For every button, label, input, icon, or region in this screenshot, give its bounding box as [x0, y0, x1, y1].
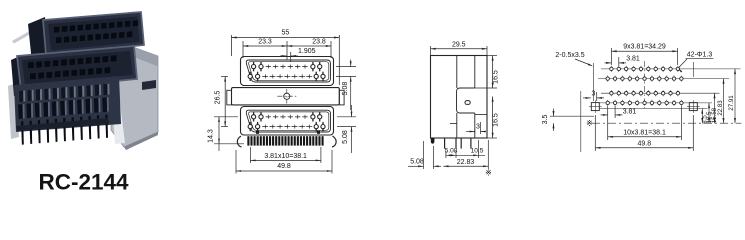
- photo: upper SCART pin holes row 1: [54, 27, 59, 33]
- svg-text:22.83: 22.83: [717, 100, 724, 116]
- front view: 23.8 dimension: [287, 45, 331, 47]
- front view: lower row 2 pins: [249, 122, 251, 131]
- front view: lower SCART opening (double outline): [246, 110, 330, 132]
- photo: upper connector housing left wall: [28, 17, 47, 63]
- front view: upper face outer outline: [241, 57, 334, 86]
- front view: flange right tab: [339, 90, 344, 105]
- side view: body outline: [431, 56, 488, 139]
- side view: thick front pin: [431, 138, 435, 144]
- svg-text:10x3.81=38.1: 10x3.81=38.1: [623, 129, 666, 136]
- front view: lower 5.08 dimension: [337, 116, 356, 118]
- front view: mounting flange: [232, 88, 340, 105]
- front view: right retention clip: [332, 136, 336, 147]
- svg-text:2-0.5x3.5: 2-0.5x3.5: [555, 52, 584, 59]
- photo: metal shield right rear panel: [111, 47, 158, 147]
- svg-text:5.08: 5.08: [445, 148, 458, 155]
- side view: left 5.08 dimension: [422, 141, 424, 169]
- side view: 16.5 upper dimension: [487, 55, 497, 57]
- svg-text:23.8: 23.8: [312, 39, 326, 46]
- photo: lower body block: [14, 76, 121, 132]
- pcb view: 3.5 dimension: [550, 115, 594, 117]
- svg-text:5.08: 5.08: [410, 158, 424, 165]
- svg-text:5.08: 5.08: [342, 82, 349, 96]
- side view: 22.83 dimension: [487, 140, 489, 169]
- pcb view: hole row 3 (10 holes): [610, 90, 612, 96]
- svg-text:29.5: 29.5: [452, 41, 466, 48]
- pcb view: bottom dashed centerline: [592, 122, 742, 124]
- photo: shield top face shading: [131, 47, 158, 66]
- side view: 3 dimension: [474, 129, 476, 134]
- pcb view: hole row 1 (10 holes): [610, 66, 612, 72]
- pcb view: pad bottom extension line: [599, 107, 708, 109]
- photo: upper SCART pin holes row 2: [56, 37, 61, 43]
- pcb view: 3 dimension: [596, 92, 598, 101]
- pcb view: right slot pad: [689, 103, 697, 111]
- front view: 23.3 dimension: [242, 41, 244, 58]
- side view: latch notch: [457, 88, 475, 113]
- photo: lower SCART pin holes row 2: [30, 73, 36, 79]
- svg-text:23.3: 23.3: [258, 39, 272, 46]
- pcb view: right vertical dimensions: [701, 108, 703, 123]
- pcb view: lower 3.81 dimension: [614, 106, 616, 118]
- pcb view: hole row 2 (11 holes): [607, 76, 609, 82]
- svg-text:5.08: 5.08: [342, 130, 349, 144]
- front view: 14.3 dimension: [214, 116, 238, 118]
- pcb view: vertical centerline: [644, 61, 646, 111]
- side view: shield step line: [475, 113, 487, 115]
- pcb view: upper 3.81 dimension: [618, 57, 620, 66]
- svg-text:55: 55: [282, 30, 290, 37]
- photo: shield bottom shadow edge: [124, 132, 158, 150]
- front view: upper row 2 pins: [249, 72, 251, 81]
- photo: shield latch slot: [142, 80, 156, 90]
- svg-text:14.3: 14.3: [208, 129, 215, 143]
- svg-text:3.81: 3.81: [623, 108, 637, 115]
- front view: 26.5 dimension: [221, 75, 228, 77]
- svg-text:3: 3: [476, 124, 480, 131]
- front view: flange left tab: [227, 90, 232, 105]
- photo: shield highlight stripe: [111, 86, 125, 144]
- svg-text:3.81x10=38.1: 3.81x10=38.1: [264, 153, 307, 160]
- side view: internal vertical edge (shield): [474, 56, 476, 89]
- photo: lower connector housing left wall: [11, 56, 23, 96]
- svg-text:10.5: 10.5: [471, 148, 484, 155]
- svg-text:16.5: 16.5: [493, 113, 500, 127]
- svg-text:※: ※: [485, 169, 492, 178]
- photo: black pin spikes: [21, 121, 24, 144]
- pcb view: left edge extension line: [580, 91, 582, 152]
- photo: lower SCART face inner recess: [22, 51, 133, 85]
- front view: 3.81x10=38.1 dimension: [249, 147, 251, 163]
- svg-text:※: ※: [586, 119, 593, 128]
- front view: upper SCART opening (double outline): [246, 60, 330, 82]
- photo: left metal sliver: [8, 83, 19, 139]
- pcb view: right pad upper extension: [692, 62, 694, 77]
- side view: 29.5 dimension: [430, 46, 432, 55]
- svg-text:3.81: 3.81: [626, 55, 640, 62]
- front view: 49.8 dimension: [235, 150, 237, 174]
- svg-text:16.5: 16.5: [493, 70, 500, 84]
- svg-text:49.8: 49.8: [277, 163, 291, 170]
- side view: pins: [444, 138, 446, 149]
- photo: upper SCART face inner recess: [48, 17, 140, 51]
- front view: lower row 1 pins: [253, 112, 255, 121]
- svg-text:42-Φ1.3: 42-Φ1.3: [687, 52, 713, 59]
- front view: upper 5.08 dimension: [336, 66, 356, 68]
- side view: housing step line: [450, 123, 457, 125]
- photo: metal shield top-left edge sliver: [12, 21, 49, 44]
- front view: flange center screw hole: [284, 93, 290, 99]
- side view: internal vertical edge (front housing): [456, 56, 458, 89]
- front view: left retention clip: [237, 136, 241, 147]
- pcb view: 9x3.81=34.29 dimension: [610, 48, 612, 65]
- photo: upper SCART face: [43, 12, 144, 55]
- svg-text:49.8: 49.8: [637, 140, 651, 147]
- svg-text:22.83: 22.83: [457, 159, 475, 166]
- svg-text:RC-2144: RC-2144: [38, 170, 129, 195]
- photo: lower SCART face: [17, 46, 137, 90]
- pcb view: 49.8 dimension: [594, 115, 596, 151]
- svg-text:27.91: 27.91: [728, 95, 735, 111]
- svg-text:3.5: 3.5: [542, 115, 549, 125]
- pcb view: 10x3.81=38.1 dimension: [607, 106, 609, 140]
- svg-text:3: 3: [592, 90, 596, 97]
- pcb view: left slot pad: [591, 103, 599, 111]
- side view: 5.08 / 10.5 pin dimension line: [445, 151, 447, 158]
- pcb view: hole row 4 (11 holes): [607, 100, 609, 106]
- front view: 1.905 dimension: [290, 52, 292, 62]
- svg-text:26.5: 26.5: [215, 91, 222, 105]
- svg-text:1.905: 1.905: [298, 48, 316, 55]
- photo: body comb teeth lower row: [18, 104, 23, 119]
- front view: 55 dimension: [231, 35, 233, 56]
- svg-text:9x3.81=34.29: 9x3.81=34.29: [623, 44, 666, 51]
- side view: latch hole: [465, 101, 470, 105]
- front view: upper row 1 pins: [253, 62, 255, 71]
- photo: body bottom shadow: [16, 118, 109, 131]
- photo: body comb teeth upper row: [19, 91, 23, 102]
- pcb view: row centerlines: [601, 68, 741, 70]
- photo: lower SCART pin holes row 1: [28, 62, 34, 68]
- front view: lower face edge marks: [256, 131, 259, 134]
- front view: lower face outer outline: [241, 107, 334, 136]
- side view: 16.5 lower dimension: [487, 137, 497, 139]
- front view: pin comb: [247, 136, 249, 145]
